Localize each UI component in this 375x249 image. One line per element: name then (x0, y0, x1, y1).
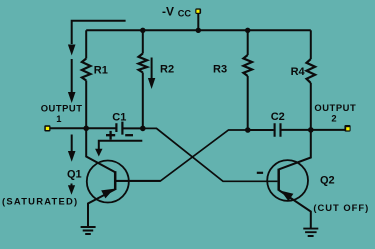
wire OUTPUT1 node to C1 left plate (86, 127, 115, 129)
polarity + (C1 left) (106, 131, 115, 140)
junction OUTPUT1 node (83, 126, 89, 132)
transistor Q1 circle (87, 161, 129, 203)
wire C1 node to Q2 base (cross-coupling) (143, 128, 278, 181)
transistor Q1 emitter wire (88, 189, 115, 226)
wire C2 left lead (248, 129, 274, 131)
wire C2 node to Q1 base (cross-coupling) (116, 130, 248, 181)
svg-text:R1: R1 (94, 65, 108, 77)
wire R3 branch top (247, 30, 249, 55)
svg-text:(CUT OFF): (CUT OFF) (313, 202, 369, 213)
transistor Q1 emitter arrow (PNP) (101, 189, 114, 199)
svg-text:Q1: Q1 (67, 169, 82, 181)
current arrow C1 discharge (elbow) (95, 141, 142, 157)
svg-text:C1: C1 (112, 112, 126, 124)
transistor Q1 base lead (116, 180, 160, 182)
svg-text:R4: R4 (291, 66, 306, 78)
svg-text:CC: CC (178, 8, 192, 18)
wire -VCC drop (197, 13, 199, 30)
wire R1 bottom to OUTPUT1 node (85, 81, 87, 129)
svg-text:R2: R2 (160, 63, 174, 75)
ground (Q2 emitter) (303, 229, 318, 236)
junction bus/-VCC (196, 28, 201, 33)
resistor R4 (307, 59, 316, 83)
wire OUTPUT2 terminal lead (311, 129, 345, 131)
junction OUTPUT2 node (308, 127, 314, 133)
wire R4 branch top (310, 30, 312, 59)
wire current-path corner top left (72, 21, 126, 44)
svg-text:R3: R3 (213, 63, 227, 75)
wire R2 branch top (142, 30, 144, 53)
wire R2 bottom to C1 node (142, 73, 144, 129)
wire R4 bottom to OUTPUT2 node (310, 83, 312, 130)
svg-text:Q2: Q2 (320, 174, 335, 186)
junction bus/R3 (245, 28, 250, 33)
svg-text:C2: C2 (271, 111, 285, 123)
capacitor C2 (275, 123, 281, 137)
polarity - (C1 right) (125, 134, 133, 136)
svg-text:2: 2 (331, 112, 336, 123)
current arrow 3 (Q1 collector) (68, 135, 76, 162)
label OUTPUT 1 (41, 102, 83, 124)
current arrow 2 (left, above OUTPUT1) (68, 59, 76, 103)
wire C1 right plate to node (123, 127, 142, 129)
svg-text:(SATURATED): (SATURATED) (2, 196, 78, 207)
current arrow 4 (Q1 emitter, small) (68, 184, 75, 195)
transistor Q1 collector wire (86, 128, 115, 172)
junction bus/R2 (140, 28, 145, 33)
resistor R3 (243, 55, 252, 76)
wire top supply bus (86, 29, 311, 31)
transistor Q2 emitter wire (279, 190, 311, 228)
terminal OUTPUT 1 (44, 125, 50, 131)
svg-text:OUTPUT: OUTPUT (41, 102, 83, 113)
wire C2 right plate to OUTPUT2 node (281, 129, 310, 131)
transistor Q2 base bar (277, 169, 280, 191)
junction C1/R2 node (140, 126, 146, 132)
svg-text:1: 1 (56, 113, 61, 124)
capacitor C1 (116, 122, 122, 135)
label OUTPUT 2 (314, 102, 356, 123)
transistor Q2 emitter arrow (PNP) (281, 191, 294, 201)
resistor R2 (139, 54, 148, 73)
terminal -VCC (195, 8, 201, 14)
transistor Q2 collector wire (279, 130, 311, 170)
transistor Q1 base bar (114, 171, 117, 190)
polarity - (Q2 base) (257, 172, 263, 174)
wire R3 bottom to C2 node (247, 76, 249, 130)
label -VCC (162, 5, 191, 19)
transistor Q2 circle (267, 160, 308, 201)
ground (Q1 emitter) (81, 227, 96, 234)
current arrow 1 (top left) (68, 45, 76, 56)
terminal OUTPUT 2 (344, 125, 350, 132)
wire OUTPUT1 terminal lead (50, 127, 86, 129)
svg-text:-V: -V (162, 5, 174, 19)
junction R3/C2 node (245, 127, 251, 133)
resistor R1 (82, 59, 91, 81)
current arrow R2 (148, 58, 155, 90)
wire R1 branch top (85, 30, 87, 58)
